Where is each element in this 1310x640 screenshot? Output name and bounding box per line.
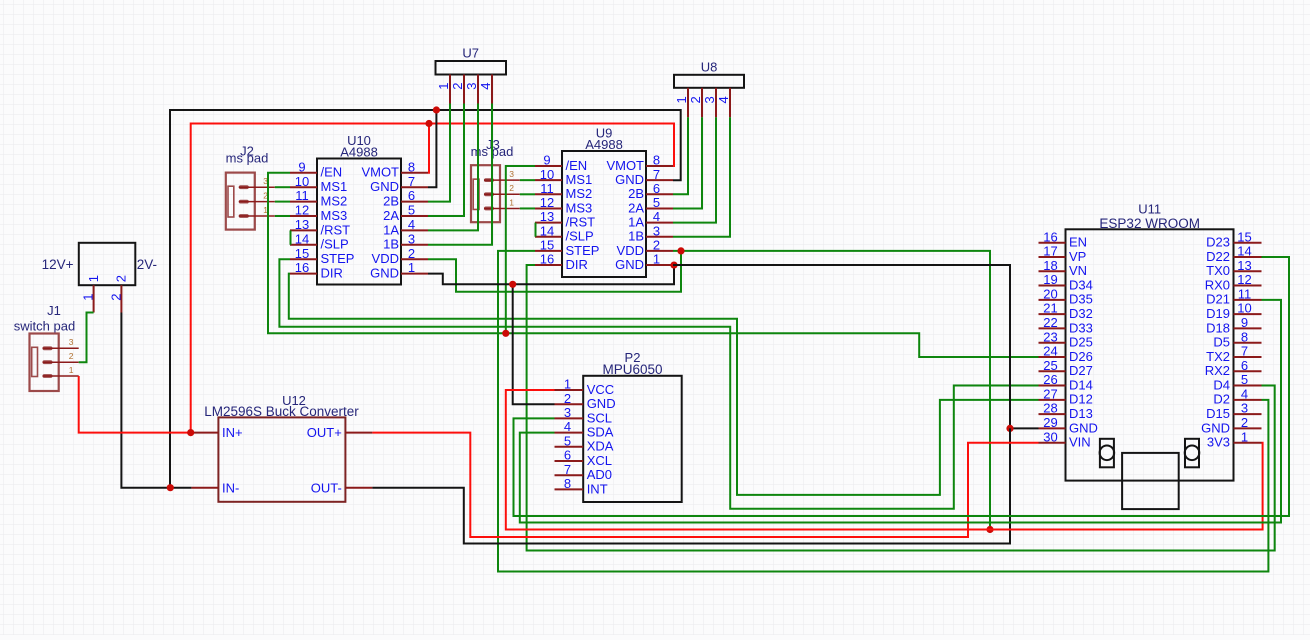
wire 12V- to U12 IN- bbox=[121, 313, 191, 488]
header U8 body bbox=[674, 59, 744, 88]
svg-text:2: 2 bbox=[69, 351, 74, 361]
U9 pin 11 MS2 bbox=[535, 181, 592, 201]
P2 pin 7 AD0 bbox=[555, 462, 612, 482]
svg-text:11: 11 bbox=[540, 181, 554, 196]
U8 pin 1 bbox=[674, 88, 689, 118]
svg-text:2: 2 bbox=[509, 183, 514, 193]
svg-text:2B: 2B bbox=[628, 186, 644, 201]
U9 pin 5 2A bbox=[628, 195, 673, 215]
U9 pin 15 STEP bbox=[535, 238, 599, 258]
U11 pin 28 D13 bbox=[1039, 401, 1093, 421]
P2 pin 4 SDA bbox=[555, 419, 614, 439]
U11 pin 9 D18 bbox=[1206, 315, 1261, 335]
svg-text:D13: D13 bbox=[1069, 406, 1093, 421]
U9 pin 3 1B bbox=[628, 223, 673, 243]
junction /EN net bbox=[502, 330, 509, 337]
J2 pad 2 bbox=[239, 190, 275, 203]
svg-text:GND: GND bbox=[370, 179, 399, 194]
svg-text:RX0: RX0 bbox=[1205, 277, 1230, 292]
svg-text:D23: D23 bbox=[1206, 235, 1230, 250]
svg-text:LM2596S Buck Converter: LM2596S Buck Converter bbox=[204, 404, 359, 419]
U11 pin 27 D12 bbox=[1039, 386, 1093, 406]
svg-text:6: 6 bbox=[653, 181, 660, 196]
U11 pin 21 D32 bbox=[1039, 301, 1093, 321]
svg-text:D5: D5 bbox=[1213, 335, 1230, 350]
IC U12 LM2596S body bbox=[204, 393, 359, 502]
U11 pin 2 GND bbox=[1201, 415, 1261, 435]
U11 pin 19 D34 bbox=[1039, 272, 1093, 292]
J1 pad 1 bbox=[43, 365, 79, 378]
U7 pin 1 bbox=[436, 75, 451, 104]
svg-text:6: 6 bbox=[1241, 358, 1248, 373]
wire GND rail U9 to U11 GND29 bbox=[673, 265, 1039, 428]
svg-text:D26: D26 bbox=[1069, 349, 1093, 364]
U9 pin 10 MS1 bbox=[535, 167, 592, 187]
svg-text:17: 17 bbox=[1043, 244, 1057, 259]
svg-text:5: 5 bbox=[653, 195, 660, 210]
P2 pin 6 XCL bbox=[555, 448, 612, 468]
svg-text:7: 7 bbox=[1241, 344, 1248, 359]
svg-text:2A: 2A bbox=[383, 208, 399, 223]
wire J1 pin1 to U12 IN+ bbox=[79, 376, 192, 433]
svg-text:14: 14 bbox=[295, 231, 309, 246]
P2 pin 1 VCC bbox=[555, 377, 615, 397]
svg-text:30: 30 bbox=[1043, 429, 1057, 444]
U9 pin 6 2B bbox=[628, 181, 673, 201]
U7 pin 2 bbox=[450, 75, 465, 104]
wire U9 DIR to U11 D4 bbox=[527, 265, 1275, 550]
J3 pad 2 bbox=[484, 183, 520, 196]
svg-text:11: 11 bbox=[295, 188, 309, 203]
svg-text:IN-: IN- bbox=[222, 480, 239, 495]
svg-text:16: 16 bbox=[1043, 229, 1057, 244]
svg-text:1B: 1B bbox=[383, 237, 399, 252]
U10 pin 7 GND bbox=[370, 174, 428, 194]
U11 pin 17 VP bbox=[1039, 244, 1087, 264]
U12 pin IN+ bbox=[191, 425, 242, 440]
svg-text:3: 3 bbox=[69, 337, 74, 347]
junction GND branch bbox=[509, 281, 516, 288]
U9 pin 7 GND bbox=[615, 167, 673, 187]
svg-text:4: 4 bbox=[478, 83, 493, 90]
wire /EN net U10.9-U9.9-U11 D26 bbox=[268, 173, 1039, 357]
svg-text:24: 24 bbox=[1043, 344, 1057, 359]
svg-text:RX2: RX2 bbox=[1205, 363, 1230, 378]
svg-text:3V3: 3V3 bbox=[1207, 435, 1230, 450]
svg-text:OUT-: OUT- bbox=[311, 480, 342, 495]
wire VDD net U10.2-U9.2 bbox=[428, 251, 681, 292]
svg-text:18: 18 bbox=[1043, 258, 1057, 273]
U9 pin 14 /SLP bbox=[535, 223, 594, 243]
wire U8.4 - U9 1B bbox=[673, 117, 730, 236]
svg-text:3: 3 bbox=[464, 83, 479, 90]
svg-text:XDA: XDA bbox=[587, 439, 614, 454]
header U7 body bbox=[436, 46, 507, 75]
svg-text:13: 13 bbox=[540, 209, 554, 224]
svg-text:/EN: /EN bbox=[566, 158, 588, 173]
J1 pad 3 bbox=[43, 337, 79, 350]
svg-text:D14: D14 bbox=[1069, 377, 1093, 392]
svg-text:/SLP: /SLP bbox=[321, 237, 349, 252]
svg-text:D34: D34 bbox=[1069, 277, 1093, 292]
svg-text:ms pad: ms pad bbox=[226, 151, 269, 166]
wire U8.2 - U9 2A bbox=[673, 117, 702, 208]
svg-text:TX0: TX0 bbox=[1206, 263, 1230, 278]
svg-text:2A: 2A bbox=[628, 200, 644, 215]
U9 pin 12 MS3 bbox=[535, 195, 592, 215]
svg-text:/SLP: /SLP bbox=[566, 229, 594, 244]
U8 pin 3 bbox=[702, 88, 717, 118]
wire U9 /EN branch bbox=[506, 166, 535, 333]
J3 pad 1 bbox=[484, 197, 520, 210]
wire P2 SDA to U11 D21 bbox=[520, 300, 1281, 523]
svg-text:4: 4 bbox=[1241, 386, 1248, 401]
svg-text:D22: D22 bbox=[1206, 249, 1230, 264]
U11 pin 8 D5 bbox=[1213, 329, 1261, 349]
svg-text:VP: VP bbox=[1069, 249, 1086, 264]
svg-text:1: 1 bbox=[653, 252, 660, 267]
svg-text:14: 14 bbox=[540, 223, 554, 238]
wire J3 to U9 pin 10 bbox=[520, 179, 535, 181]
svg-text:12: 12 bbox=[1237, 272, 1251, 287]
svg-text:21: 21 bbox=[1043, 301, 1057, 316]
connector J1 label bbox=[14, 303, 75, 334]
svg-text:D35: D35 bbox=[1069, 292, 1093, 307]
svg-text:1B: 1B bbox=[628, 229, 644, 244]
wire P2 SCL to U11 D22 bbox=[514, 257, 1290, 516]
svg-text:GND: GND bbox=[587, 396, 616, 411]
P2 pin 2 GND bbox=[555, 391, 616, 411]
svg-text:4: 4 bbox=[564, 419, 571, 434]
svg-text:5: 5 bbox=[408, 203, 415, 218]
U10 pin 14 /SLP bbox=[290, 231, 349, 251]
svg-text:23: 23 bbox=[1043, 329, 1057, 344]
U11 pin 10 D19 bbox=[1206, 301, 1261, 321]
U10 pin 9 /EN bbox=[290, 159, 342, 179]
U10 pin 1 GND bbox=[370, 260, 428, 280]
svg-text:15: 15 bbox=[1237, 229, 1251, 244]
U11 pin 1 3V3 bbox=[1207, 429, 1262, 449]
svg-text:11: 11 bbox=[1238, 286, 1252, 301]
svg-text:U8: U8 bbox=[701, 59, 718, 74]
wire GND U10.1 to GND rail bbox=[428, 265, 674, 284]
svg-text:EN: EN bbox=[1069, 235, 1087, 250]
connector J2 body bbox=[226, 173, 255, 230]
svg-text:5: 5 bbox=[1241, 372, 1248, 387]
U9 pin 16 DIR bbox=[535, 252, 588, 272]
U11 pin 22 D33 bbox=[1039, 315, 1093, 335]
junction U11 GND29 bbox=[1006, 425, 1013, 432]
svg-text:10: 10 bbox=[540, 167, 554, 182]
U11 pin 18 VN bbox=[1039, 258, 1088, 278]
IC U9 title bbox=[585, 126, 623, 152]
svg-text:GND: GND bbox=[615, 257, 644, 272]
svg-text:MS2: MS2 bbox=[321, 194, 348, 209]
svg-text:STEP: STEP bbox=[321, 251, 355, 266]
svg-text:IN+: IN+ bbox=[222, 425, 243, 440]
svg-text:SDA: SDA bbox=[587, 425, 614, 440]
svg-text:MS1: MS1 bbox=[566, 172, 593, 187]
wire U8.1 - U9 2B bbox=[673, 117, 688, 194]
svg-text:U11: U11 bbox=[1138, 202, 1161, 217]
svg-text:10: 10 bbox=[1237, 301, 1251, 316]
wire 12V+ to J1 pin2 bbox=[79, 313, 94, 363]
connector J2 label bbox=[226, 144, 269, 166]
junction IN- / GND bus bbox=[167, 484, 174, 491]
junction VDD to 3V3 line bbox=[986, 526, 993, 533]
junction IN+ / VMOT bus bbox=[187, 429, 194, 436]
U8 pin 2 bbox=[688, 88, 703, 118]
wire J2 to U10 pin 10 bbox=[275, 186, 290, 188]
svg-text:15: 15 bbox=[540, 238, 554, 253]
junction red bus / U10 VMOT bbox=[425, 120, 432, 127]
svg-text:2: 2 bbox=[408, 246, 415, 261]
U10 pin 10 MS1 bbox=[290, 174, 347, 194]
svg-text:MS1: MS1 bbox=[321, 179, 348, 194]
IC U10 A4988 body bbox=[317, 159, 401, 285]
wire J2 to U10 pin 11 bbox=[275, 201, 290, 203]
U11 pin 4 D2 bbox=[1213, 386, 1261, 406]
svg-text:14: 14 bbox=[1237, 244, 1251, 259]
svg-text:SCL: SCL bbox=[587, 410, 612, 425]
svg-text:MS2: MS2 bbox=[566, 186, 593, 201]
svg-text:D12: D12 bbox=[1069, 392, 1093, 407]
svg-text:MPU6050: MPU6050 bbox=[602, 362, 662, 377]
svg-text:1: 1 bbox=[1241, 429, 1248, 444]
junction black bus / U10 GND bbox=[433, 106, 440, 113]
U11 pin 14 D22 bbox=[1206, 244, 1261, 264]
U10 pin 6 2B bbox=[383, 188, 428, 208]
U10 pin 5 2A bbox=[383, 203, 428, 223]
wire U8.3 - U9 1A bbox=[673, 117, 716, 222]
svg-text:STEP: STEP bbox=[566, 243, 600, 258]
wire U10 GND7 to black bus bbox=[428, 110, 436, 187]
U8 pin 4 bbox=[716, 88, 731, 118]
svg-text:DIR: DIR bbox=[321, 266, 343, 281]
svg-text:AD0: AD0 bbox=[587, 467, 612, 482]
wire U10 /RST-/SLP jumper bbox=[290, 230, 292, 244]
svg-text:1: 1 bbox=[436, 83, 451, 90]
U9 pin 2 VDD bbox=[617, 238, 673, 258]
svg-text:A4988: A4988 bbox=[340, 144, 378, 159]
svg-text:15: 15 bbox=[295, 246, 309, 261]
svg-text:2: 2 bbox=[564, 391, 571, 406]
U11 pin 5 D4 bbox=[1213, 372, 1261, 392]
wire U7.3 - U10 1A bbox=[428, 104, 478, 231]
IC U11 ESP32 WROOM body bbox=[1066, 202, 1234, 481]
svg-text:1: 1 bbox=[408, 260, 415, 275]
svg-text:3: 3 bbox=[564, 405, 571, 420]
wire U9 STEP to U11 D2 bbox=[498, 251, 1268, 572]
U11 pin 26 D14 bbox=[1039, 372, 1093, 392]
wire GND branch to P2 GND bbox=[513, 284, 555, 404]
svg-text:2: 2 bbox=[450, 83, 465, 90]
svg-text:3: 3 bbox=[509, 169, 514, 179]
U12 pin OUT- bbox=[311, 480, 373, 495]
J2 pad 1 bbox=[239, 205, 275, 218]
svg-text:12V+: 12V+ bbox=[42, 257, 74, 272]
U11 pin 13 TX0 bbox=[1206, 258, 1261, 278]
svg-text:8: 8 bbox=[564, 476, 571, 491]
svg-text:13: 13 bbox=[1237, 258, 1251, 273]
svg-text:7: 7 bbox=[564, 462, 571, 477]
svg-text:VDD: VDD bbox=[372, 251, 399, 266]
svg-text:2: 2 bbox=[653, 238, 660, 253]
svg-text:1A: 1A bbox=[383, 222, 399, 237]
svg-text:GND: GND bbox=[1069, 420, 1098, 435]
U7 pin 3 bbox=[464, 75, 479, 104]
U10 pin 16 DIR bbox=[290, 260, 343, 280]
svg-text:16: 16 bbox=[295, 260, 309, 275]
svg-text:GND: GND bbox=[615, 172, 644, 187]
svg-text:7: 7 bbox=[408, 174, 415, 189]
svg-text:VMOT: VMOT bbox=[361, 165, 399, 180]
connector J3 label bbox=[471, 137, 514, 159]
svg-text:INT: INT bbox=[587, 481, 608, 496]
svg-text:D27: D27 bbox=[1069, 363, 1093, 378]
wire J3 to U9 pin 12 bbox=[520, 207, 535, 209]
U11 pin 24 D26 bbox=[1039, 344, 1093, 364]
wire J3 to U9 pin 11 bbox=[520, 193, 535, 195]
U11 pin 16 EN bbox=[1039, 229, 1088, 249]
U11 pin 30 VIN bbox=[1039, 429, 1091, 449]
U11 pin 20 D35 bbox=[1039, 286, 1093, 306]
svg-text:3: 3 bbox=[1241, 401, 1248, 416]
svg-text:3: 3 bbox=[653, 223, 660, 238]
svg-text:27: 27 bbox=[1043, 386, 1057, 401]
svg-text:D33: D33 bbox=[1069, 320, 1093, 335]
svg-text:1: 1 bbox=[564, 377, 571, 392]
svg-text:/RST: /RST bbox=[566, 215, 596, 230]
power source 12V block body bbox=[42, 243, 157, 285]
wire VDD net U9.2 east run bbox=[673, 251, 990, 530]
svg-text:1: 1 bbox=[509, 197, 514, 207]
U11 pin 25 D27 bbox=[1039, 358, 1093, 378]
wire U7.2 - U10 2A bbox=[428, 104, 464, 217]
svg-text:13: 13 bbox=[295, 217, 309, 232]
svg-text:2: 2 bbox=[113, 275, 128, 282]
svg-text:D32: D32 bbox=[1069, 306, 1093, 321]
U11 module bottom tab bbox=[1122, 453, 1179, 509]
svg-text:28: 28 bbox=[1043, 401, 1057, 416]
svg-text:D19: D19 bbox=[1206, 306, 1230, 321]
svg-text:D4: D4 bbox=[1213, 377, 1230, 392]
svg-text:8: 8 bbox=[653, 153, 660, 168]
svg-text:22: 22 bbox=[1043, 315, 1057, 330]
U7 pin 4 bbox=[478, 75, 493, 104]
svg-text:7: 7 bbox=[653, 167, 660, 182]
IC U9 A4988 body bbox=[562, 151, 646, 277]
svg-text:19: 19 bbox=[1043, 272, 1057, 287]
svg-text:switch pad: switch pad bbox=[14, 319, 75, 334]
svg-text:4: 4 bbox=[653, 209, 660, 224]
U12 pin IN- bbox=[191, 480, 239, 495]
svg-text:J1: J1 bbox=[47, 303, 61, 318]
svg-text:6: 6 bbox=[408, 188, 415, 203]
U10 pin 12 MS3 bbox=[290, 203, 347, 223]
svg-text:ESP32 WROOM: ESP32 WROOM bbox=[1099, 216, 1200, 231]
svg-text:8: 8 bbox=[1241, 329, 1248, 344]
U11 pin 3 D15 bbox=[1206, 401, 1261, 421]
svg-text:10: 10 bbox=[295, 174, 309, 189]
svg-text:U7: U7 bbox=[462, 46, 479, 61]
U11 pin 29 GND bbox=[1039, 415, 1098, 435]
svg-text:2: 2 bbox=[108, 294, 123, 301]
P2 pin 5 XDA bbox=[555, 433, 614, 453]
wire U10 STEP to U11 D14 bbox=[279, 259, 1038, 509]
svg-text:25: 25 bbox=[1043, 358, 1057, 373]
svg-text:GND: GND bbox=[370, 266, 399, 281]
junction U9 VDD bbox=[677, 247, 684, 254]
svg-text:16: 16 bbox=[540, 252, 554, 267]
svg-text:DIR: DIR bbox=[566, 257, 588, 272]
svg-text:1: 1 bbox=[674, 96, 689, 103]
svg-text:26: 26 bbox=[1043, 372, 1057, 387]
U11 pin 12 RX0 bbox=[1205, 272, 1262, 292]
U11 pin 23 D25 bbox=[1039, 329, 1093, 349]
U9 pin 8 VMOT bbox=[606, 153, 673, 173]
svg-text:VDD: VDD bbox=[617, 243, 644, 258]
svg-text:D2: D2 bbox=[1213, 392, 1230, 407]
U9 pin 13 /RST bbox=[535, 209, 595, 229]
U10 pin 2 VDD bbox=[372, 246, 428, 266]
connector J3 body bbox=[471, 165, 500, 222]
wire U10 VMOT to red bus bbox=[428, 124, 429, 173]
J1 pad 2 bbox=[43, 351, 79, 364]
svg-text:2: 2 bbox=[688, 96, 703, 103]
U11 pin 7 TX2 bbox=[1206, 344, 1261, 364]
svg-text:9: 9 bbox=[543, 153, 550, 168]
U10 pin 4 1A bbox=[383, 217, 428, 237]
svg-text:TX2: TX2 bbox=[1206, 349, 1230, 364]
svg-text:/EN: /EN bbox=[321, 165, 343, 180]
svg-text:VMOT: VMOT bbox=[606, 158, 644, 173]
svg-text:GND: GND bbox=[1201, 420, 1230, 435]
U10 pin 15 STEP bbox=[290, 246, 354, 266]
svg-text:9: 9 bbox=[1241, 315, 1248, 330]
svg-text:8: 8 bbox=[408, 159, 415, 174]
U11 module antenna pads bbox=[1100, 439, 1200, 468]
U11 pin 6 RX2 bbox=[1205, 358, 1262, 378]
svg-text:2: 2 bbox=[1241, 415, 1248, 430]
svg-text:3: 3 bbox=[702, 96, 717, 103]
svg-text:6: 6 bbox=[564, 448, 571, 463]
wire U10 DIR to U11 D12 bbox=[289, 274, 1039, 495]
connector J1 body bbox=[30, 334, 59, 392]
svg-text:VIN: VIN bbox=[1069, 435, 1091, 450]
svg-text:9: 9 bbox=[298, 159, 305, 174]
U10 pin 13 /RST bbox=[290, 217, 350, 237]
wire U11 3V3 to P2 VCC bbox=[506, 390, 1263, 530]
svg-text:D21: D21 bbox=[1206, 292, 1230, 307]
svg-text:A4988: A4988 bbox=[585, 137, 623, 152]
wire VMOT top bus (red) bbox=[191, 124, 674, 433]
wire U7.4 - U10 1B bbox=[428, 104, 492, 245]
junction U9 GND pin1 bbox=[670, 261, 677, 268]
12V block pin 1 bbox=[80, 275, 101, 312]
12V block pin 2 bbox=[108, 275, 128, 312]
svg-text:12: 12 bbox=[540, 195, 554, 210]
svg-text:12: 12 bbox=[295, 203, 309, 218]
U10 pin 3 1B bbox=[383, 231, 428, 251]
svg-text:29: 29 bbox=[1043, 415, 1057, 430]
wire U12 OUT+ to U11 VIN bbox=[372, 433, 1038, 537]
svg-text:2B: 2B bbox=[383, 194, 399, 209]
svg-text:D25: D25 bbox=[1069, 335, 1093, 350]
svg-text:5: 5 bbox=[564, 433, 571, 448]
U11 pin 15 D23 bbox=[1206, 229, 1261, 249]
U9 pin 1 GND bbox=[615, 252, 673, 272]
